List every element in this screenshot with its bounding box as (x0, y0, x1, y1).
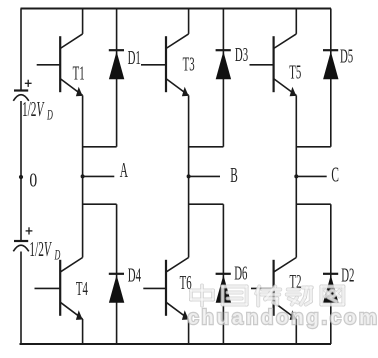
wire: diode D6 branch join (189, 203, 224, 205)
svg-text:T4: T4 (76, 279, 88, 300)
wire: diode D4 branch vertical (116, 204, 118, 344)
transistor T3 (141, 34, 195, 96)
left DC bus wire (20, 9, 22, 90)
diode D1 (109, 48, 141, 79)
wire: diode D2 branch vertical (330, 204, 332, 344)
wire: diode D1 branch join (83, 146, 117, 148)
wire: leg A lower emitter drop (82, 319, 84, 344)
wire: leg C midsection (emitter to lower collector) (295, 95, 297, 257)
wire: diode D3 branch vertical (222, 9, 224, 147)
capacitor C2 (1/2 Vd) (13, 227, 60, 263)
wire: diode D1 branch vertical (116, 9, 118, 147)
transistor T2 (251, 258, 301, 320)
node A (phase output) (81, 158, 129, 182)
svg-text:D: D (46, 106, 53, 123)
wire: diode D3 branch join (189, 146, 224, 148)
wire: leg A midsection (emitter to lower collector) (82, 95, 84, 257)
wire: diode D4 branch join (83, 203, 117, 205)
transistor T1 (37, 34, 85, 96)
node C (phase output) (294, 163, 339, 187)
svg-text:1/2V: 1/2V (29, 237, 52, 261)
svg-text:C: C (331, 163, 339, 187)
node O (DC midpoint) (19, 169, 37, 191)
wire: leg B upper collector drop (188, 9, 190, 34)
transistor T4 (35, 258, 88, 320)
wire: diode D2 branch join (296, 203, 331, 205)
svg-text:T1: T1 (73, 63, 85, 84)
wire: diode D5 branch vertical (330, 9, 332, 147)
bottom DC rail (-) (20, 343, 332, 345)
svg-text:A: A (120, 158, 129, 182)
wire: leg C lower emitter drop (295, 319, 297, 344)
svg-text:D2: D2 (341, 265, 354, 286)
diode D5 (323, 46, 353, 79)
transistor T6 (143, 258, 191, 320)
top DC rail (+) (21, 8, 332, 10)
wire: diode D6 branch vertical (222, 204, 224, 344)
svg-text:chuandong.com: chuandong.com (188, 307, 378, 329)
svg-text:D5: D5 (340, 46, 353, 67)
svg-text:1/2V: 1/2V (22, 97, 45, 121)
svg-text:D1: D1 (128, 48, 141, 69)
diode D4 (109, 265, 141, 302)
wire: diode D5 branch join (296, 146, 331, 148)
wire: leg A upper collector drop (82, 9, 84, 34)
svg-text:D3: D3 (235, 45, 248, 66)
capacitor C1 (1/2 Vd) (13, 80, 53, 124)
node B (phase output) (187, 163, 238, 187)
svg-text:D4: D4 (128, 265, 141, 286)
svg-text:0: 0 (29, 169, 37, 191)
wire: leg B lower emitter drop (188, 319, 190, 344)
wire: leg B midsection (emitter to lower collector) (188, 95, 190, 257)
wire: leg C upper collector drop (295, 9, 297, 34)
svg-text:B: B (230, 163, 238, 187)
diode D3 (216, 45, 248, 79)
transistor T5 (250, 34, 302, 96)
svg-text:T5: T5 (289, 62, 301, 83)
diode D2 (323, 265, 354, 302)
diode D6 (216, 263, 248, 302)
watermark: zhongguo chuandong wang logo (188, 286, 378, 330)
svg-text:D6: D6 (234, 263, 247, 284)
svg-text:T3: T3 (183, 54, 195, 75)
